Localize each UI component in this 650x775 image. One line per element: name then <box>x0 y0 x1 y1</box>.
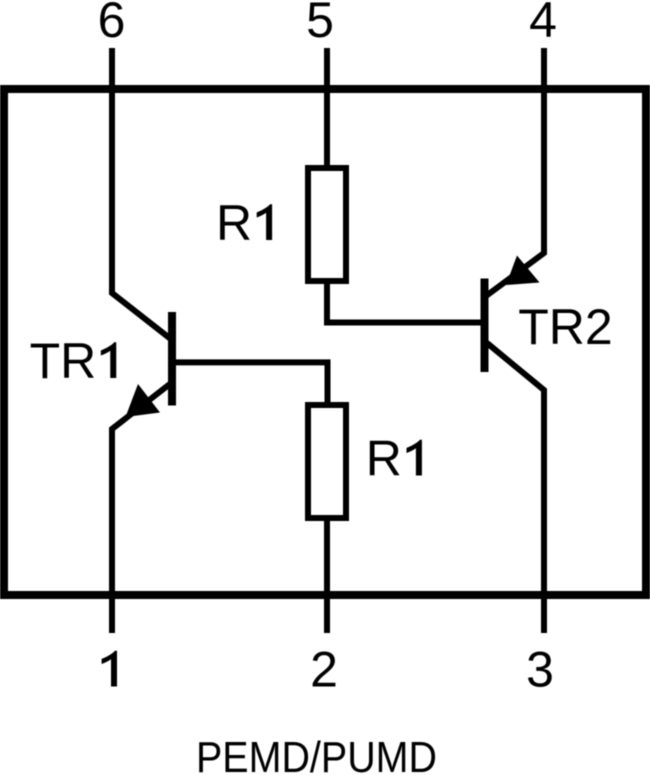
wire pin 4 to TR2 emitter <box>486 48 544 296</box>
TR1 emitter arrow <box>126 384 161 417</box>
svg-text:PEMD/PUMD: PEMD/PUMD <box>196 733 437 775</box>
wire lower resistor to pin 2 <box>324 518 330 633</box>
svg-text:2: 2 <box>310 642 338 698</box>
svg-text:TR: TR <box>30 333 97 389</box>
package outline box <box>4 89 646 595</box>
svg-text:R: R <box>216 195 252 251</box>
wire pin 6 to TR1 collector <box>112 48 172 340</box>
transistor TR2 base bar <box>481 279 489 373</box>
transistor TR1 base bar <box>168 312 176 406</box>
wire TR2 collector to pin 3 <box>487 343 544 633</box>
svg-text:TR2: TR2 <box>518 299 612 355</box>
resistor R1 lower <box>308 405 346 518</box>
svg-text:6: 6 <box>98 0 126 48</box>
wire TR1 base to lower resistor R1 <box>176 362 328 405</box>
resistor R1 upper <box>308 168 346 281</box>
TR2 emitter arrow <box>506 256 540 286</box>
wire pin 5 to upper resistor <box>324 48 330 168</box>
wire TR1 emitter to pin 1 <box>112 384 171 634</box>
svg-text:4: 4 <box>529 0 557 48</box>
svg-text:5: 5 <box>306 0 334 48</box>
svg-text:3: 3 <box>526 642 554 698</box>
pin 1 label <box>102 651 117 687</box>
wire upper resistor to TR2 base <box>327 281 481 323</box>
svg-text:R: R <box>366 431 402 487</box>
